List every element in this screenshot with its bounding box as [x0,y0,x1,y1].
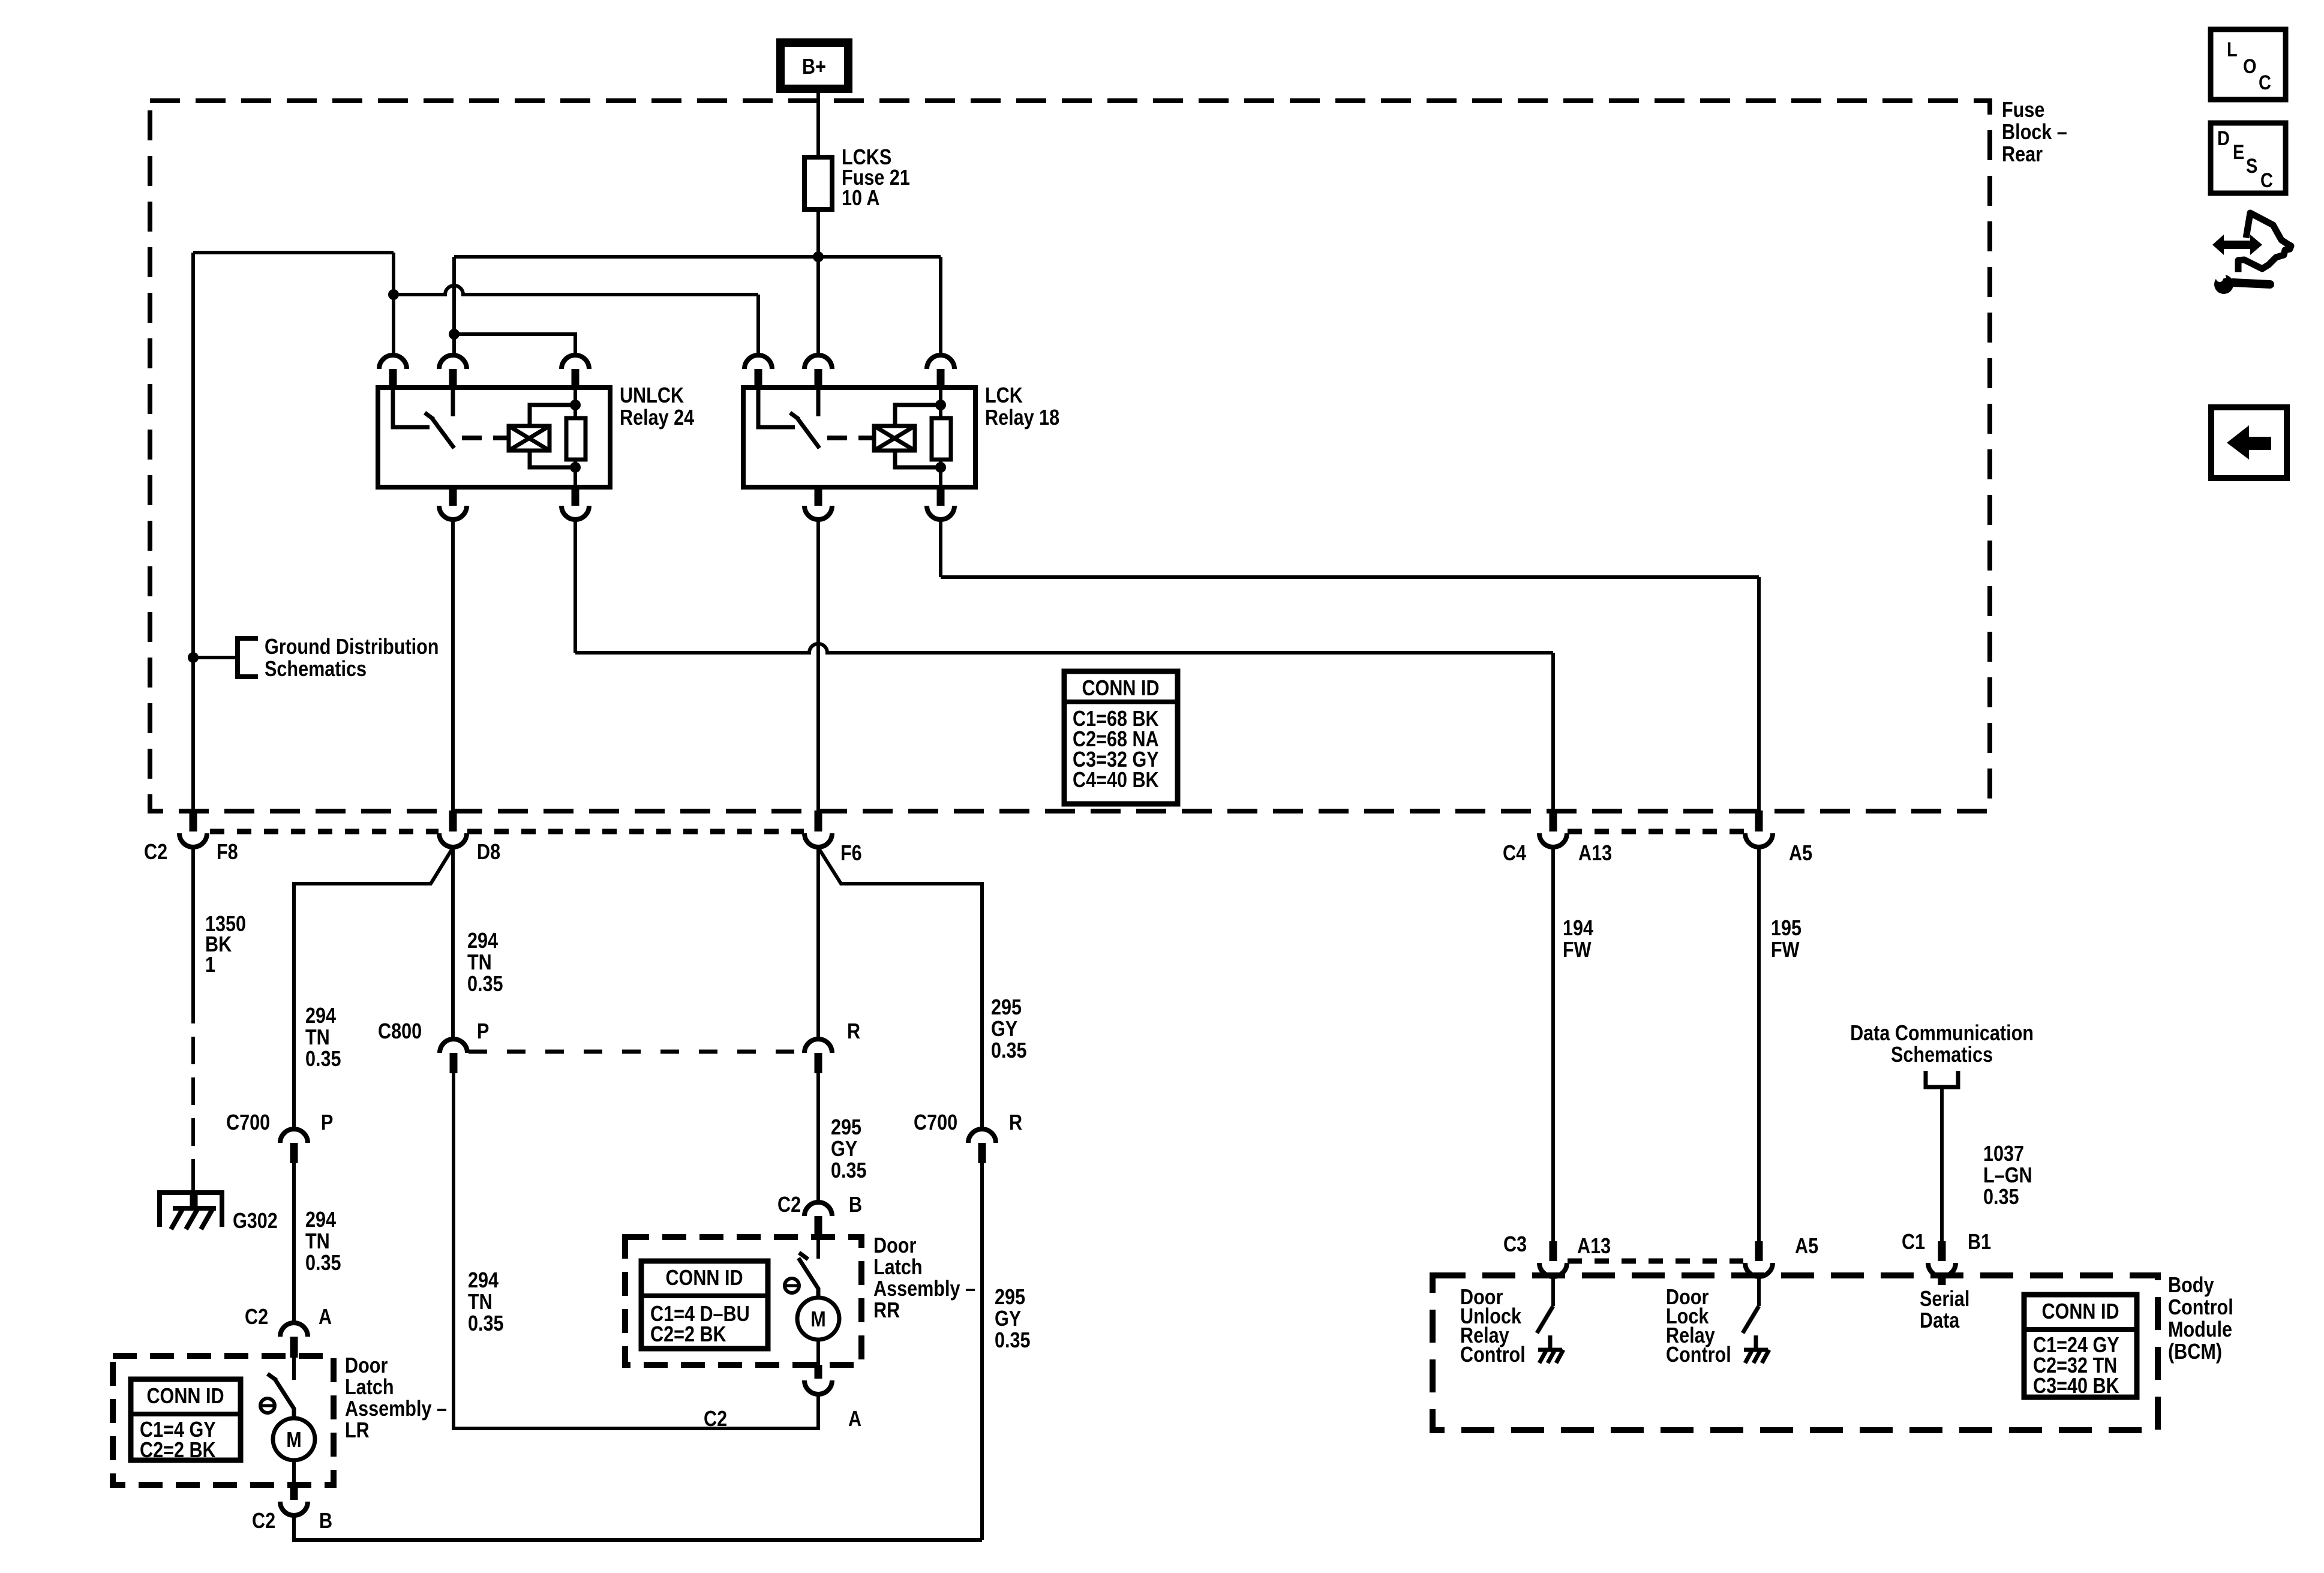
door unlock relay control switch [1551,1277,1555,1306]
svg-text:M: M [810,1308,825,1332]
svg-text:Data Communication: Data Communication [1850,1022,2034,1046]
wire C800-P down to RR latch A [454,1073,818,1428]
CONN ID table LR latch [131,1379,241,1460]
wire LCK coil output to A5 column [941,575,1759,579]
svg-text:M: M [286,1428,301,1452]
svg-text:Block –: Block – [2002,121,2067,145]
svg-text:Control: Control [1666,1343,1731,1367]
wire 1350 BK dashed section [191,996,195,1173]
connector C2 B at LR latch [280,1502,308,1515]
svg-text:C800: C800 [378,1020,422,1044]
connector A5 (fuse block) [1755,810,1763,831]
svg-text:CONN ID: CONN ID [146,1385,224,1409]
svg-text:C4=40 BK: C4=40 BK [1073,769,1159,792]
svg-text:UNLCK: UNLCK [620,384,684,408]
svg-text:B: B [319,1509,332,1533]
motor position contact LR [260,1398,275,1413]
wire UNLCK coil output to C4 column with hop [575,644,1553,653]
svg-text:TN: TN [467,951,492,975]
CONN ID table RR latch [641,1261,768,1349]
dotted line C800 row P to R [469,1050,803,1054]
icon back arrow button [2211,407,2287,478]
wire down to UNLCK switch pin [452,334,456,355]
svg-text:0.35: 0.35 [468,1312,504,1336]
svg-text:P: P [477,1020,489,1044]
svg-text:Rear: Rear [2002,143,2043,167]
svg-text:L–GN: L–GN [1983,1164,2032,1188]
svg-text:LCK: LCK [985,384,1023,408]
wire F6 diagonal branch to C700-R column [818,848,982,1130]
svg-text:Control: Control [1460,1343,1526,1367]
svg-text:A: A [319,1305,332,1329]
CONN ID table fuse block [1064,671,1178,804]
connector F8 (fuse block C2) [190,810,197,831]
svg-text:D8: D8 [477,840,500,864]
wire common feed to LCK relay with hop [394,286,758,295]
svg-text:B1: B1 [1968,1230,1991,1254]
svg-text:Ground Distribution: Ground Distribution [265,635,439,659]
svg-text:TN: TN [305,1230,330,1254]
svg-text:294: 294 [305,1004,336,1028]
ground door lock relay [1754,1335,1758,1350]
wire ground feed to UNLCK common [193,251,394,254]
body control module dashed box [1433,1275,2158,1430]
svg-text:O: O [2243,55,2256,78]
svg-text:Latch: Latch [345,1376,394,1400]
junction dot ground distribution tap [188,652,199,663]
svg-text:FW: FW [1563,938,1592,962]
ground door unlock relay [1548,1335,1553,1350]
wire D8 to C800-P [451,848,455,1038]
CONN ID table BCM [2024,1295,2137,1397]
wire LCK coil output down [939,520,942,577]
connector C3/A13 at BCM [1550,1241,1557,1261]
svg-text:GY: GY [831,1137,857,1161]
wire fused B+ rail to relay feeds [454,255,941,259]
svg-text:Door: Door [873,1234,916,1258]
motor M LR [273,1418,315,1460]
icon DESC button [2211,123,2286,193]
svg-text:294: 294 [305,1208,336,1232]
wire B+ to fuse [816,89,820,157]
connector C4/A13 [1550,810,1557,831]
svg-text:A13: A13 [1577,1235,1611,1259]
icon vehicle outline [2238,213,2291,269]
wire down to LCK common pin [756,295,760,355]
svg-text:195: 195 [1771,917,1801,941]
junction dot fused B+ node [813,251,824,262]
svg-text:0.35: 0.35 [831,1159,867,1183]
svg-text:295: 295 [995,1286,1025,1310]
svg-text:294: 294 [467,929,498,953]
wire F6 to R connector [816,848,820,1038]
svg-text:Schematics: Schematics [265,658,367,682]
svg-text:S: S [2246,154,2257,178]
svg-text:Door: Door [345,1354,388,1378]
connector C2 A at RR latch [804,1380,832,1394]
svg-text:RR: RR [873,1299,900,1323]
svg-text:Body: Body [2168,1274,2214,1298]
connector C800 P [440,1039,467,1053]
svg-text:10 A: 10 A [842,187,879,211]
svg-text:CONN ID: CONN ID [1082,677,1159,701]
wire ground column from relays to F8 [191,253,195,810]
svg-text:Latch: Latch [873,1256,923,1280]
icon vehicle double arrow [2212,235,2262,255]
wire down to C4 connector [1551,653,1555,810]
svg-text:Relay 18: Relay 18 [985,406,1059,430]
svg-text:FW: FW [1771,938,1800,962]
svg-text:Assembly –: Assembly – [345,1397,447,1421]
svg-text:Module: Module [2168,1318,2232,1342]
wire D8 diagonal branch to C700-P column [294,848,453,1130]
data communication reference bracket [1926,1071,1958,1087]
svg-text:295: 295 [831,1116,861,1140]
svg-text:0.35: 0.35 [995,1329,1031,1353]
svg-text:1: 1 [205,953,215,977]
svg-text:TN: TN [468,1290,493,1314]
junction dot common feed split [388,289,399,300]
svg-text:C700: C700 [226,1111,270,1135]
relay LCK Relay 18 [743,388,975,487]
relay UNLCK Relay 24 [378,388,610,487]
connector C2 B at RR latch [804,1202,832,1216]
svg-text:LR: LR [345,1419,370,1443]
svg-text:A: A [848,1407,861,1431]
motor M RR [797,1298,839,1340]
wire serial data 1037 L-GN [1940,1087,1944,1241]
svg-text:B+: B+ [802,55,826,79]
wire rail left corner down to UNLCK mid-pin column [452,257,456,334]
wire C4 to BCM C3 [1551,848,1555,1241]
svg-text:GY: GY [995,1307,1021,1331]
switch LR latch [292,1358,296,1380]
wire A5 to BCM A5 [1757,848,1761,1241]
wire 1350 BK below F8 [191,848,195,996]
fuse block - rear dashed border box [150,101,1990,811]
svg-text:A5: A5 [1795,1235,1818,1259]
ground G302 symbol [160,1193,222,1227]
wire LR latch B to C700-R column [294,1516,982,1540]
dotted connector line F8 to F6 [210,829,804,834]
svg-text:GY: GY [991,1017,1017,1041]
svg-text:Assembly –: Assembly – [873,1277,975,1301]
door latch assembly LR dashed box [113,1356,334,1485]
connector R at C800 row [804,1039,832,1053]
svg-text:A13: A13 [1578,842,1612,866]
svg-text:Control: Control [2168,1296,2233,1320]
wire C700-P to LR latch A [292,1163,296,1323]
wire fused B+ down to LCK switch pin [816,257,820,355]
svg-text:(BCM): (BCM) [2168,1340,2222,1364]
svg-text:D: D [2217,127,2230,150]
svg-text:0.35: 0.35 [991,1039,1027,1063]
icon LOC button [2211,29,2286,100]
wire R down to RR latch B [816,1073,820,1202]
svg-text:E: E [2233,140,2244,164]
svg-text:295: 295 [991,996,1022,1020]
junction dot UNLCK feed [449,329,460,340]
wire down to UNLCK common pin [392,253,395,355]
power feed B+ box [780,43,848,89]
svg-text:Relay 24: Relay 24 [620,406,695,430]
wire LCK switch output to F6 [816,520,820,810]
wire C700-R down to LR latch B wire [980,1163,984,1540]
motor position contact RR [785,1278,799,1293]
icon wrench [2233,283,2270,284]
svg-text:C2: C2 [144,840,167,864]
wire RR motor to C2 A [816,1340,820,1365]
wire UNLCK coil output down [574,520,577,653]
svg-text:C2=2 BK: C2=2 BK [650,1323,726,1347]
wire fuse to junction [816,209,820,257]
svg-text:P: P [321,1111,333,1135]
wire into G302 [191,1173,195,1193]
svg-text:C700: C700 [914,1111,957,1135]
wire rail right corner down to LCK coil pin [939,257,942,355]
svg-text:Schematics: Schematics [1891,1043,1993,1067]
wire to ground distribution bracket [193,656,238,659]
connector F6 [815,810,822,831]
svg-text:Serial: Serial [1920,1287,1969,1311]
svg-text:194: 194 [1563,917,1593,941]
svg-text:F8: F8 [217,840,238,864]
wire branch to UNLCK coil pin [454,334,575,355]
svg-text:Fuse: Fuse [2002,98,2044,122]
dotted connector line C4 to A5 [1568,829,1744,834]
svg-text:TN: TN [305,1026,330,1050]
svg-text:1037: 1037 [1983,1142,2024,1166]
svg-text:C3: C3 [1503,1233,1527,1257]
svg-text:R: R [847,1020,860,1044]
svg-text:294: 294 [468,1269,499,1293]
svg-text:C1: C1 [1902,1230,1925,1254]
svg-text:C: C [2260,169,2273,192]
svg-text:C2: C2 [245,1305,268,1329]
door lock relay control switch [1757,1277,1761,1306]
svg-text:C2: C2 [252,1509,275,1533]
wire LR motor to C2 B [292,1460,296,1486]
svg-text:CONN ID: CONN ID [665,1266,743,1290]
svg-text:0.35: 0.35 [305,1047,341,1071]
svg-text:F6: F6 [840,842,862,866]
svg-text:C4: C4 [1503,842,1526,866]
connector C2 A at LR latch [280,1323,308,1337]
svg-text:0.35: 0.35 [467,972,503,996]
svg-text:Data: Data [1920,1309,1960,1333]
connector A5 at BCM [1755,1241,1763,1261]
svg-text:0.35: 0.35 [1983,1185,2019,1209]
switch RR latch [816,1237,820,1259]
svg-text:C3=40 BK: C3=40 BK [2033,1374,2119,1398]
wire down to A5 connector [1757,577,1761,810]
svg-text:L: L [2227,38,2238,61]
connector D8 [449,810,457,831]
svg-text:B: B [849,1193,862,1217]
door latch assembly RR dashed box [625,1237,861,1365]
svg-text:R: R [1009,1111,1022,1135]
wire UNLCK switch output to D8 [451,520,455,810]
ground distribution reference bracket [238,638,258,677]
svg-text:C2: C2 [704,1407,727,1431]
connector C700 P [280,1129,308,1143]
svg-text:G302: G302 [233,1209,278,1233]
svg-text:CONN ID: CONN ID [2041,1300,2119,1324]
svg-text:C: C [2259,71,2271,94]
svg-text:0.35: 0.35 [305,1251,341,1275]
svg-text:C2=2 BK: C2=2 BK [140,1439,216,1463]
connector C1 B1 serial data [1938,1241,1946,1261]
svg-text:A5: A5 [1789,842,1812,866]
fuse LCKS Fuse 21 10A [804,157,832,209]
connector C700 R [968,1129,996,1143]
dotted connector line A13 to A5 BCM [1568,1259,1743,1264]
svg-text:C2: C2 [777,1193,801,1217]
